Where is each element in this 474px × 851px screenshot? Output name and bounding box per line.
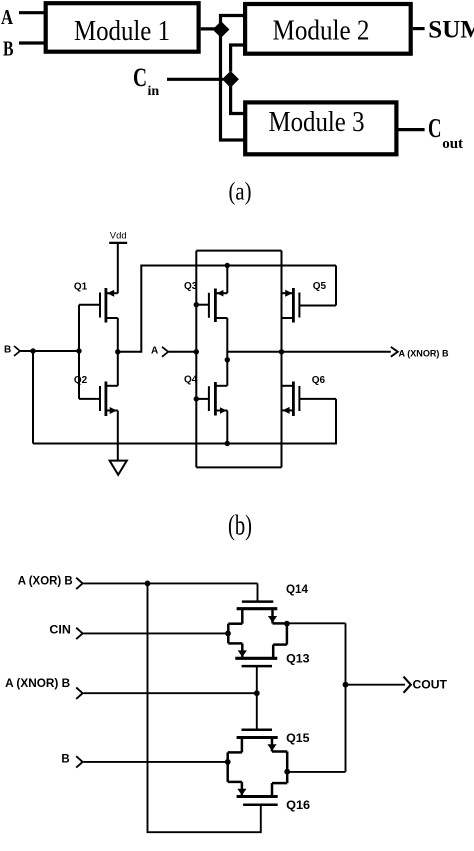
svg-text:B: B <box>3 37 14 61</box>
wire COUT <box>346 684 406 686</box>
wire down to Q14 gate <box>257 583 259 601</box>
wire Cout output <box>399 128 425 131</box>
arrow Q13 left <box>238 650 247 657</box>
transistor Q5 (PMOS mirrored) <box>282 288 337 323</box>
node output bus <box>279 349 284 354</box>
transistor Q3 (PMOS) <box>196 289 227 323</box>
svg-text:in: in <box>148 84 160 99</box>
transistor Q6 (NMOS mirrored) <box>282 382 337 417</box>
svg-text:Module 3: Module 3 <box>269 107 365 138</box>
wire input B <box>20 350 79 352</box>
svg-text:B: B <box>4 345 11 356</box>
svg-text:Q16: Q16 <box>286 798 310 812</box>
node COUT tap <box>343 682 349 688</box>
transistor Q2 (NMOS) <box>79 382 118 417</box>
wire TG2 output <box>287 771 345 773</box>
node B rail tap <box>30 348 35 353</box>
svg-text:CIN: CIN <box>49 625 71 637</box>
input chevron CIN <box>76 628 82 639</box>
svg-text:(a): (a) <box>229 176 252 205</box>
wire inverter output to Q3 source and Q5 gate loop <box>118 266 336 352</box>
wire pass box top edge <box>196 250 281 252</box>
svg-text:SUM: SUM <box>428 17 474 44</box>
transmission gate Q15 / Q16 <box>228 730 288 805</box>
ground <box>110 461 127 475</box>
wire SUM output <box>413 27 425 30</box>
svg-text:Q6: Q6 <box>312 375 326 386</box>
wire input A (XNOR) B <box>83 692 256 694</box>
node B at TG2 <box>225 759 231 765</box>
svg-text:C: C <box>428 113 442 143</box>
node Q3 gate <box>194 302 199 307</box>
node A on bus <box>194 349 199 354</box>
junction dots part b <box>30 263 284 446</box>
svg-text:C: C <box>133 63 147 92</box>
wire Q3 source up to B' wire <box>226 266 228 294</box>
module M2 box <box>245 4 411 54</box>
output chevron A XNOR B <box>391 347 398 357</box>
wire Q2 source down to ground <box>117 411 119 461</box>
wire junction J1 down to module3 lower input <box>221 29 244 140</box>
svg-text:Q5: Q5 <box>313 281 327 292</box>
wire input B <box>83 761 227 763</box>
svg-text:Module 1: Module 1 <box>74 16 170 47</box>
wire output bus <box>345 623 347 772</box>
Vdd bar <box>109 242 127 244</box>
svg-text:(b): (b) <box>228 511 252 542</box>
input chevron A XNOR B <box>76 688 82 699</box>
wire Q6 gate loop vertical <box>335 399 337 444</box>
module M1 box <box>46 3 199 52</box>
node B' to Q3 source <box>225 263 230 268</box>
svg-text:A (XNOR) B: A (XNOR) B <box>5 678 70 690</box>
svg-text:B: B <box>61 754 69 766</box>
node output bus / pass box right edge <box>281 251 283 468</box>
arrow Q15 right <box>267 744 276 751</box>
svg-text:Q1: Q1 <box>74 282 88 293</box>
svg-text:Q13: Q13 <box>286 652 310 666</box>
junction dots part c <box>145 581 349 775</box>
transistor Q1 (PMOS) <box>79 288 118 323</box>
node XOR bus <box>145 581 151 587</box>
wire input CIN <box>83 632 228 634</box>
wire input A (XOR) B <box>83 582 257 584</box>
wire B rail <box>33 443 337 445</box>
wire junction J2 down to module3 upper input <box>231 81 244 114</box>
svg-text:A (XNOR) B: A (XNOR) B <box>399 349 449 359</box>
wire TG1 output <box>287 622 346 624</box>
node XNOR gates <box>254 690 260 696</box>
input chevron A <box>162 347 168 357</box>
wire XOR bus loop to Q16 gate <box>148 583 261 832</box>
node Q4 gate <box>194 396 199 401</box>
transmission gate Q14 / Q13 <box>228 602 287 667</box>
svg-text:out: out <box>442 136 463 152</box>
node Q4 rail <box>225 441 230 446</box>
output chevron COUT <box>404 677 411 693</box>
svg-text:Module 2: Module 2 <box>273 15 370 46</box>
wire module1 output to junction J1 <box>201 27 222 30</box>
node CIN at TG1 <box>225 631 231 637</box>
wire pass box bottom edge <box>196 466 281 468</box>
svg-text:Q15: Q15 <box>286 731 310 745</box>
node inverter output <box>115 349 120 354</box>
wire Q3 drain to Q4 drain <box>226 318 228 386</box>
svg-text:A: A <box>1 5 14 29</box>
wire Cin to junction J2 <box>167 78 223 81</box>
wire Q13 gate to Q15 gate <box>256 666 258 730</box>
arrow Q16 left <box>237 789 246 796</box>
svg-text:Q3: Q3 <box>184 281 198 292</box>
wire output A XNOR B <box>227 351 390 353</box>
wire Q5 gate loop vertical <box>335 266 337 306</box>
node A bus / pass box left edge <box>195 251 197 468</box>
junction J1 <box>213 21 230 38</box>
wire Q4 source down to rail <box>226 411 228 444</box>
wire module2 lower input from junction J2 <box>231 45 244 72</box>
wire Q1 drain to Q2 drain <box>117 318 119 386</box>
wire input A <box>168 351 196 353</box>
wire Vdd down to Q1 source <box>117 243 119 293</box>
svg-text:COUT: COUT <box>413 680 448 692</box>
svg-text:Vdd: Vdd <box>110 231 127 242</box>
input chevron A XOR B <box>76 578 82 589</box>
node B gate bus <box>76 348 81 353</box>
transistor Q4 (NMOS) <box>196 382 227 416</box>
node TG2 output <box>284 769 290 775</box>
node TG1 output <box>284 621 290 627</box>
svg-text:A (XOR) B: A (XOR) B <box>18 576 73 588</box>
svg-text:A: A <box>151 346 158 357</box>
input chevron B <box>76 756 82 767</box>
junction J2 <box>222 71 239 88</box>
arrow Q14 right <box>268 616 277 623</box>
module M3 box <box>245 102 396 154</box>
wire junction J1 up to module2 input <box>221 16 244 32</box>
wire gate bus Q1 Q2 <box>78 305 80 399</box>
wire input A <box>19 11 46 14</box>
wire B down to rail <box>32 351 34 444</box>
svg-text:Q14: Q14 <box>286 582 308 596</box>
node mid bus <box>225 357 230 362</box>
input chevron B <box>14 346 20 356</box>
svg-text:Q4: Q4 <box>184 375 198 386</box>
wire input B <box>19 41 46 44</box>
svg-text:Q2: Q2 <box>74 375 88 386</box>
